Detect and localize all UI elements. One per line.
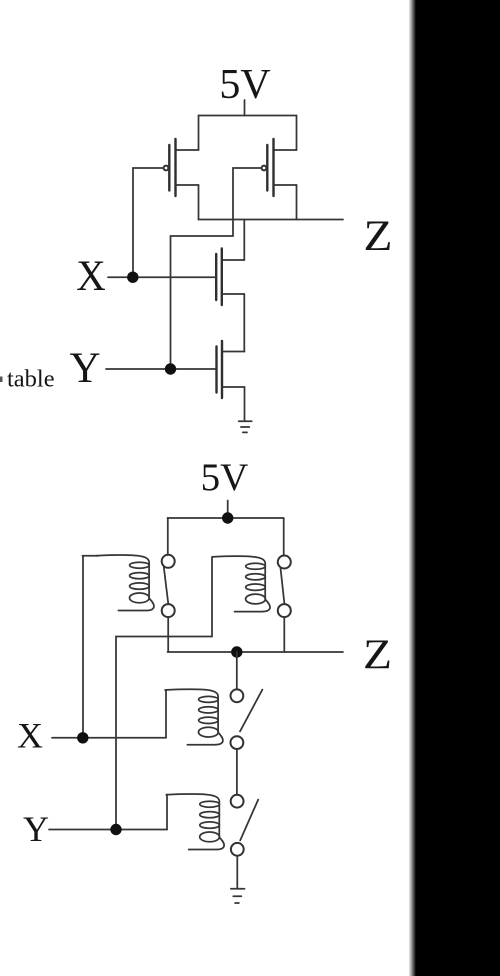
wire K1 coil to node X (82, 557, 84, 738)
junction dot Z rail (231, 646, 242, 657)
relay K2 coil (top-right) (212, 556, 270, 611)
relay K1 coil (top-left) (83, 555, 154, 610)
junction dot Y (165, 363, 176, 374)
junction dot Y (relay) (110, 824, 121, 835)
junction dot supply (222, 512, 233, 523)
relay K3 coil (middle) (165, 689, 223, 744)
wire output to Q3 drain (243, 220, 245, 261)
relay K1 NC contact (top-left switch) (162, 518, 175, 652)
svg-text:Z: Z (364, 213, 393, 260)
wire input X (relay) (52, 737, 166, 739)
wire Q2 gate lead down to node Y (171, 168, 262, 369)
wire output rail Z (relay) (168, 651, 344, 653)
junction dot X (relay) (77, 732, 88, 743)
relay K4 NO contact (bottom switch) (231, 795, 259, 889)
stray mark at left edge (0, 377, 3, 383)
svg-text:Y: Y (69, 345, 100, 392)
svg-text:table: table (7, 366, 55, 393)
wire input X (108, 276, 215, 278)
ground (top circuit) (239, 421, 252, 432)
relay K4 coil (bottom) (166, 794, 224, 849)
svg-text:5V: 5V (201, 456, 249, 499)
wire supply rail (168, 517, 284, 519)
wire Q4 source to ground (244, 387, 246, 421)
wire node X to K3 coil (165, 690, 167, 738)
wire node Y to K4 coil (166, 795, 168, 830)
wire K2 coil to node Y (116, 557, 212, 830)
wire 5V stub (227, 501, 229, 519)
transistor Q4 NMOS (bottom) (217, 341, 245, 398)
wire 5V stub (244, 100, 246, 116)
svg-text:X: X (17, 716, 43, 756)
transistor Q2 PMOS (right) (262, 116, 297, 220)
wire input Y (relay) (49, 829, 167, 831)
wire output rail to Z (199, 219, 344, 221)
junction dot X (127, 272, 138, 283)
relay K3 NO contact (middle switch) (231, 652, 263, 795)
wire Q3 source to Q4 drain (243, 294, 245, 352)
svg-text:Z: Z (363, 633, 392, 679)
transistor Q3 NMOS (top) (216, 249, 244, 306)
wire VDD rail (199, 115, 297, 117)
transistor Q1 PMOS (left) (164, 116, 199, 220)
wire Q1 gate lead to node X (133, 168, 164, 277)
svg-text:Y: Y (23, 809, 49, 849)
relay K2 NC contact (top-right switch) (278, 518, 291, 652)
svg-text:X: X (76, 253, 106, 300)
ground (relay circuit) (231, 889, 245, 903)
black sidebar (right edge) (0, 0, 1, 1)
wire input Y (106, 368, 216, 370)
